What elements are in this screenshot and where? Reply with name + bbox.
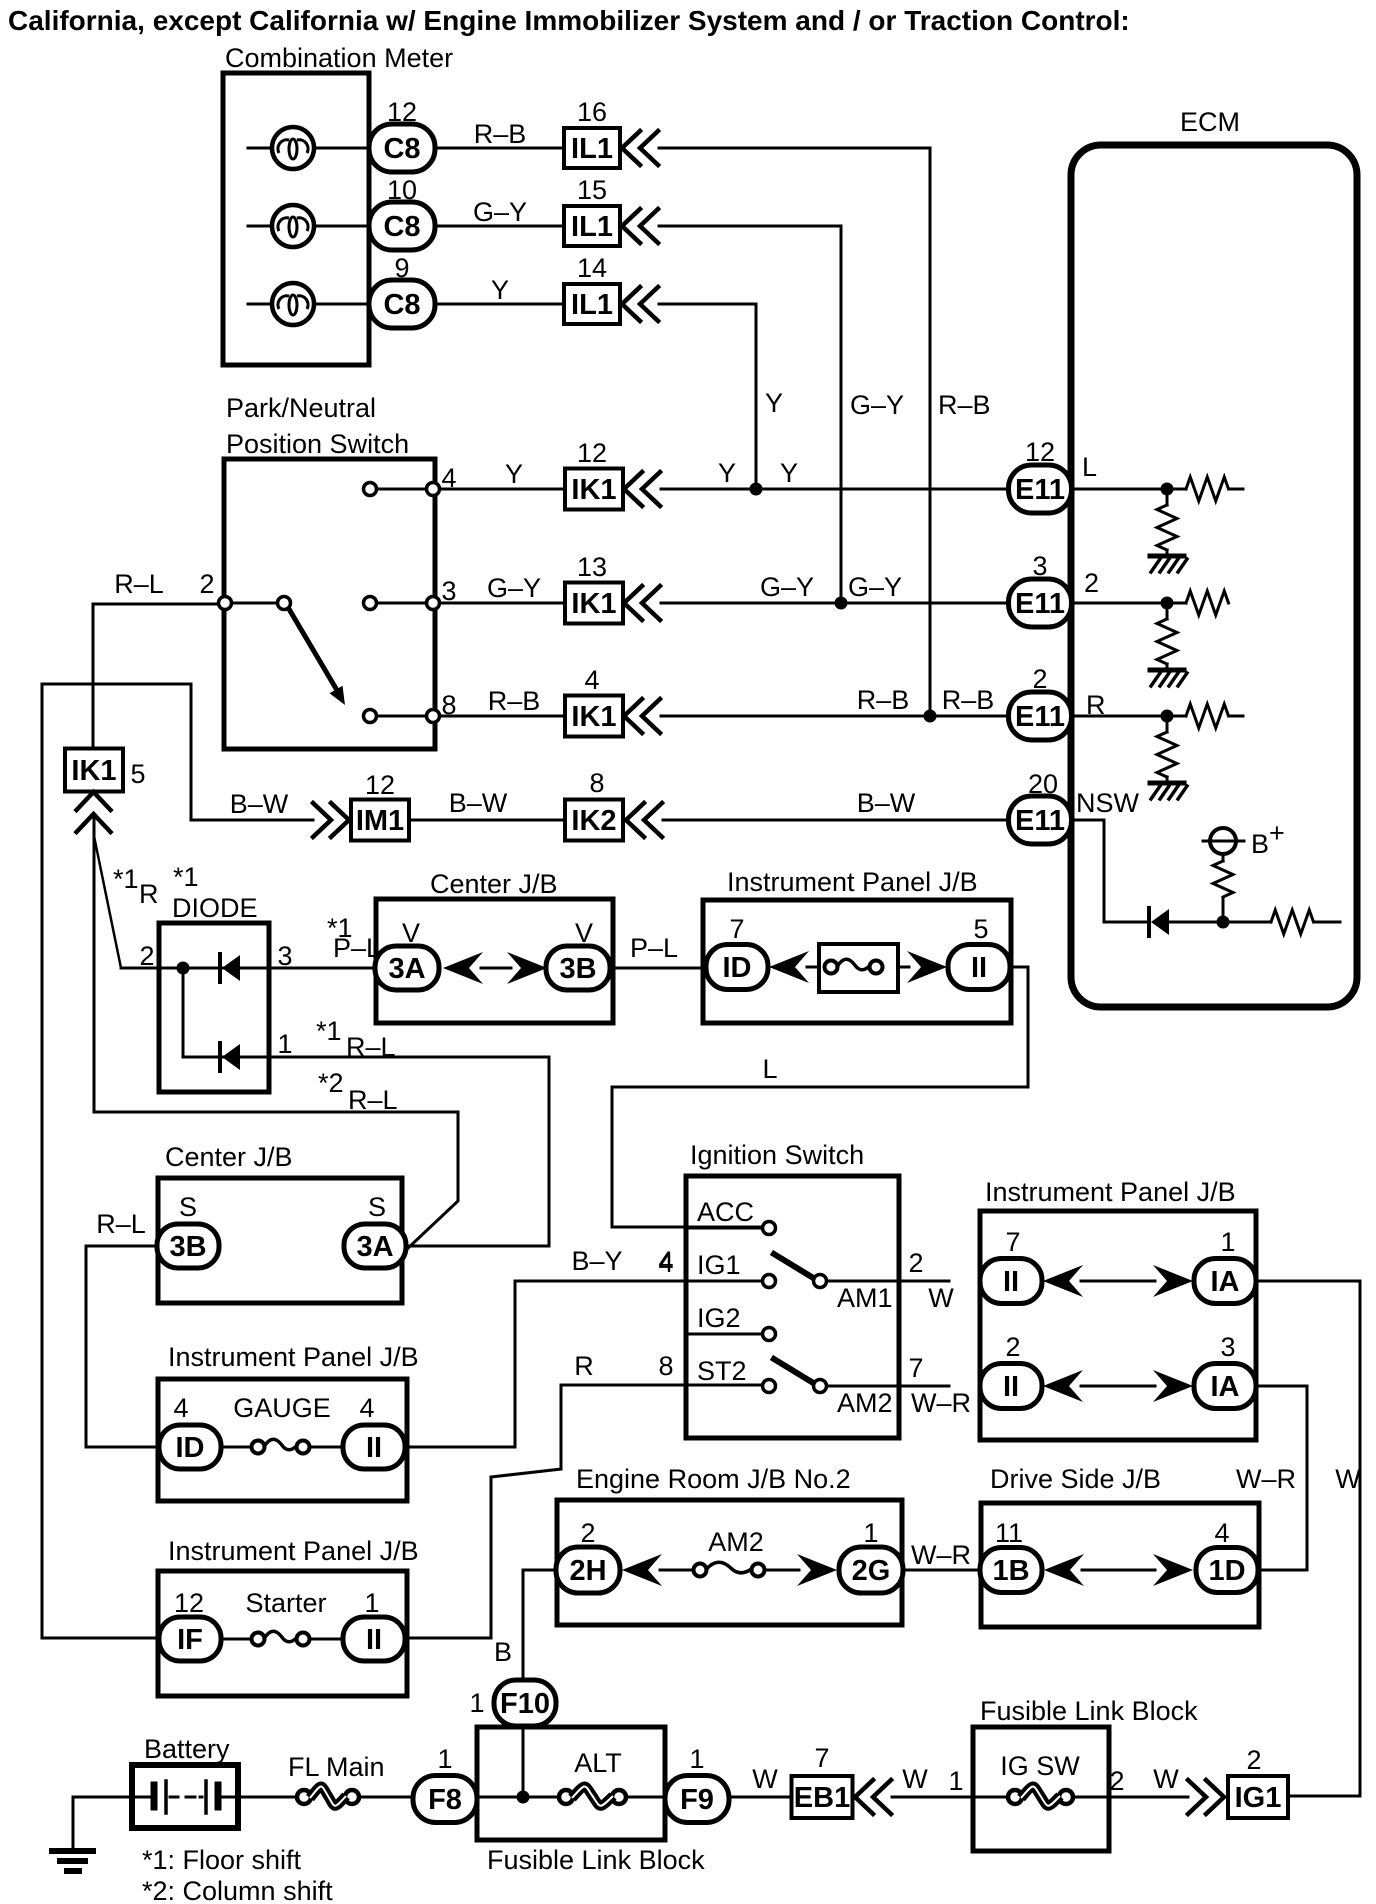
svg-text:R–B: R–B bbox=[942, 685, 995, 715]
svg-text:Ignition Switch: Ignition Switch bbox=[690, 1140, 864, 1170]
svg-text:Instrument Panel J/B: Instrument Panel J/B bbox=[985, 1177, 1236, 1207]
svg-text:*2: *2 bbox=[318, 1068, 344, 1098]
svg-text:F10: F10 bbox=[500, 1688, 550, 1720]
svg-text:P–L: P–L bbox=[333, 933, 381, 963]
svg-text:II: II bbox=[1003, 1266, 1019, 1298]
svg-text:II: II bbox=[971, 952, 987, 984]
svg-text:R–L: R–L bbox=[96, 1209, 146, 1239]
svg-text:2: 2 bbox=[1032, 664, 1047, 694]
svg-text:8: 8 bbox=[658, 1351, 673, 1381]
svg-text:R–B: R–B bbox=[474, 119, 527, 149]
svg-text:12: 12 bbox=[577, 438, 607, 468]
svg-text:G–Y: G–Y bbox=[848, 572, 902, 602]
svg-text:P–L: P–L bbox=[630, 933, 678, 963]
svg-text:12: 12 bbox=[174, 1588, 204, 1618]
svg-text:B–Y: B–Y bbox=[571, 1246, 622, 1276]
svg-text:IL1: IL1 bbox=[571, 133, 613, 165]
svg-text:3B: 3B bbox=[169, 1231, 206, 1263]
svg-text:*1: *1 bbox=[316, 1016, 342, 1046]
svg-text:ST2: ST2 bbox=[697, 1356, 747, 1386]
svg-text:3: 3 bbox=[1220, 1332, 1235, 1362]
svg-text:IF: IF bbox=[177, 1624, 203, 1656]
svg-text:Fusible Link Block: Fusible Link Block bbox=[487, 1845, 705, 1875]
svg-text:Instrument Panel J/B: Instrument Panel J/B bbox=[727, 867, 978, 897]
svg-text:Y: Y bbox=[765, 388, 783, 418]
svg-text:2: 2 bbox=[908, 1248, 923, 1278]
svg-text:3B: 3B bbox=[559, 953, 596, 985]
svg-text:2: 2 bbox=[1109, 1766, 1124, 1796]
svg-text:DIODE: DIODE bbox=[172, 893, 258, 923]
svg-text:ALT: ALT bbox=[574, 1748, 622, 1778]
svg-text:2: 2 bbox=[199, 569, 214, 599]
svg-text:5: 5 bbox=[973, 914, 988, 944]
svg-text:ID: ID bbox=[723, 952, 752, 984]
svg-text:11: 11 bbox=[995, 1518, 1023, 1548]
svg-text:20: 20 bbox=[1028, 769, 1058, 799]
svg-text:W: W bbox=[928, 1283, 954, 1313]
svg-text:IG1: IG1 bbox=[1235, 1782, 1282, 1814]
svg-text:C8: C8 bbox=[383, 289, 420, 321]
svg-text:E11: E11 bbox=[1015, 474, 1065, 506]
svg-text:Park/Neutral: Park/Neutral bbox=[226, 393, 376, 423]
svg-text:*1: *1 bbox=[113, 864, 139, 894]
svg-text:C8: C8 bbox=[383, 133, 420, 165]
svg-text:R: R bbox=[1086, 690, 1106, 720]
svg-text:California, except California: California, except California w/ Engine … bbox=[8, 5, 1130, 36]
svg-text:Y: Y bbox=[780, 458, 798, 488]
svg-text:Y: Y bbox=[491, 275, 509, 305]
svg-text:W: W bbox=[1153, 1764, 1179, 1794]
svg-text:AM1: AM1 bbox=[837, 1283, 893, 1313]
svg-text:12: 12 bbox=[387, 97, 417, 127]
svg-text:GAUGE: GAUGE bbox=[233, 1393, 331, 1423]
svg-text:L: L bbox=[762, 1054, 777, 1084]
svg-text:IK1: IK1 bbox=[571, 588, 616, 620]
svg-text:*2: Column shift: *2: Column shift bbox=[142, 1876, 333, 1904]
svg-text:2: 2 bbox=[1246, 1745, 1261, 1775]
svg-text:1B: 1B bbox=[992, 1555, 1029, 1587]
svg-text:*1: *1 bbox=[173, 862, 199, 892]
svg-text:Engine Room J/B No.2: Engine Room J/B No.2 bbox=[576, 1464, 851, 1494]
svg-text:Center J/B: Center J/B bbox=[165, 1142, 293, 1172]
svg-text:4: 4 bbox=[359, 1393, 374, 1423]
svg-text:Position Switch: Position Switch bbox=[226, 429, 409, 459]
svg-text:3: 3 bbox=[1032, 551, 1047, 581]
svg-text:IG SW: IG SW bbox=[1000, 1751, 1080, 1781]
svg-text:Center J/B: Center J/B bbox=[430, 869, 558, 899]
svg-text:4: 4 bbox=[658, 1248, 673, 1278]
svg-text:E11: E11 bbox=[1015, 805, 1065, 837]
svg-text:Y: Y bbox=[718, 458, 736, 488]
svg-text:Battery: Battery bbox=[144, 1734, 230, 1764]
svg-text:B–W: B–W bbox=[449, 788, 508, 818]
svg-text:10: 10 bbox=[387, 175, 417, 205]
svg-text:W–R: W–R bbox=[911, 1388, 971, 1418]
svg-text:Drive Side J/B: Drive Side J/B bbox=[990, 1464, 1161, 1494]
svg-text:ACC: ACC bbox=[697, 1197, 754, 1227]
svg-text:2: 2 bbox=[1005, 1332, 1020, 1362]
svg-text:1: 1 bbox=[948, 1766, 963, 1796]
svg-text:IL1: IL1 bbox=[571, 289, 613, 321]
svg-text:1: 1 bbox=[364, 1588, 379, 1618]
svg-text:Combination Meter: Combination Meter bbox=[225, 43, 453, 73]
svg-text:G–Y: G–Y bbox=[473, 197, 527, 227]
svg-text:F8: F8 bbox=[428, 1784, 462, 1816]
svg-text:1: 1 bbox=[689, 1744, 704, 1774]
svg-text:B: B bbox=[1251, 829, 1269, 859]
svg-text:4: 4 bbox=[173, 1393, 188, 1423]
svg-text:IK1: IK1 bbox=[71, 755, 116, 787]
svg-text:W–R: W–R bbox=[1236, 1464, 1296, 1494]
svg-text:9: 9 bbox=[394, 253, 409, 283]
svg-text:C8: C8 bbox=[383, 211, 420, 243]
svg-text:S: S bbox=[368, 1192, 386, 1222]
svg-text:G–Y: G–Y bbox=[760, 572, 814, 602]
svg-text:L: L bbox=[1082, 452, 1097, 482]
svg-text:2: 2 bbox=[139, 941, 154, 971]
svg-text:1: 1 bbox=[437, 1744, 452, 1774]
svg-text:2H: 2H bbox=[569, 1555, 606, 1587]
svg-text:G–Y: G–Y bbox=[487, 573, 541, 603]
svg-text:3A: 3A bbox=[356, 1231, 393, 1263]
svg-text:S: S bbox=[179, 1192, 197, 1222]
svg-text:13: 13 bbox=[577, 552, 607, 582]
svg-text:AM2: AM2 bbox=[708, 1527, 764, 1557]
svg-text:12: 12 bbox=[365, 770, 395, 800]
svg-text:IL1: IL1 bbox=[571, 211, 613, 243]
svg-text:12: 12 bbox=[1025, 437, 1055, 467]
svg-text:+: + bbox=[1269, 818, 1285, 848]
svg-text:W: W bbox=[752, 1764, 778, 1794]
svg-text:7: 7 bbox=[908, 1353, 923, 1383]
svg-text:R–B: R–B bbox=[857, 685, 910, 715]
svg-text:FL Main: FL Main bbox=[288, 1752, 385, 1782]
svg-text:R–B: R–B bbox=[938, 390, 991, 420]
svg-text:B: B bbox=[494, 1637, 512, 1667]
svg-text:IA: IA bbox=[1211, 1266, 1240, 1298]
svg-text:1: 1 bbox=[863, 1518, 878, 1548]
svg-text:15: 15 bbox=[577, 175, 607, 205]
svg-text:II: II bbox=[366, 1432, 382, 1464]
svg-text:8: 8 bbox=[589, 768, 604, 798]
svg-text:7: 7 bbox=[729, 914, 744, 944]
svg-text:II: II bbox=[1003, 1371, 1019, 1403]
svg-text:2: 2 bbox=[580, 1518, 595, 1548]
svg-text:1: 1 bbox=[1220, 1227, 1235, 1257]
svg-text:Instrument Panel J/B: Instrument Panel J/B bbox=[168, 1536, 419, 1566]
svg-text:IK1: IK1 bbox=[571, 474, 616, 506]
svg-text:*1: Floor shift: *1: Floor shift bbox=[142, 1845, 302, 1875]
svg-text:Y: Y bbox=[505, 459, 523, 489]
svg-text:1: 1 bbox=[469, 1688, 484, 1718]
svg-text:7: 7 bbox=[814, 1743, 829, 1773]
svg-text:G–Y: G–Y bbox=[850, 390, 904, 420]
svg-text:2: 2 bbox=[1084, 568, 1099, 598]
svg-text:IG2: IG2 bbox=[697, 1303, 741, 1333]
svg-text:Starter: Starter bbox=[245, 1588, 326, 1618]
svg-text:4: 4 bbox=[1214, 1518, 1229, 1548]
svg-text:R–B: R–B bbox=[488, 686, 541, 716]
svg-text:W–R: W–R bbox=[911, 1540, 971, 1570]
svg-text:ECM: ECM bbox=[1180, 107, 1240, 137]
svg-text:R: R bbox=[574, 1351, 594, 1381]
svg-text:R: R bbox=[139, 879, 159, 909]
svg-text:1: 1 bbox=[277, 1029, 292, 1059]
svg-text:3: 3 bbox=[277, 941, 292, 971]
svg-text:Instrument Panel J/B: Instrument Panel J/B bbox=[168, 1342, 419, 1372]
svg-text:1D: 1D bbox=[1208, 1555, 1245, 1587]
svg-text:ID: ID bbox=[176, 1432, 205, 1464]
svg-text:3A: 3A bbox=[388, 953, 425, 985]
svg-text:E11: E11 bbox=[1015, 588, 1065, 620]
svg-text:B–W: B–W bbox=[230, 789, 289, 819]
svg-text:IA: IA bbox=[1211, 1371, 1240, 1403]
svg-text:IG1: IG1 bbox=[697, 1250, 741, 1280]
svg-text:R–L: R–L bbox=[346, 1032, 396, 1062]
svg-text:W: W bbox=[902, 1764, 928, 1794]
svg-text:IK2: IK2 bbox=[571, 805, 616, 837]
svg-text:B–W: B–W bbox=[857, 788, 916, 818]
svg-text:F9: F9 bbox=[680, 1784, 714, 1816]
svg-text:5: 5 bbox=[130, 759, 145, 789]
svg-text:W: W bbox=[1335, 1464, 1361, 1494]
svg-text:IM1: IM1 bbox=[356, 805, 404, 837]
svg-text:NSW: NSW bbox=[1076, 788, 1140, 818]
svg-text:IK1: IK1 bbox=[571, 701, 616, 733]
svg-text:16: 16 bbox=[577, 97, 607, 127]
svg-text:AM2: AM2 bbox=[837, 1388, 893, 1418]
svg-text:R–L: R–L bbox=[114, 569, 164, 599]
svg-text:14: 14 bbox=[577, 253, 607, 283]
svg-text:EB1: EB1 bbox=[794, 1782, 850, 1814]
svg-text:7: 7 bbox=[1005, 1227, 1020, 1257]
svg-text:E11: E11 bbox=[1015, 701, 1065, 733]
svg-text:Fusible Link Block: Fusible Link Block bbox=[980, 1696, 1198, 1726]
svg-text:4: 4 bbox=[584, 665, 599, 695]
svg-text:2G: 2G bbox=[852, 1555, 891, 1587]
svg-text:II: II bbox=[366, 1624, 382, 1656]
